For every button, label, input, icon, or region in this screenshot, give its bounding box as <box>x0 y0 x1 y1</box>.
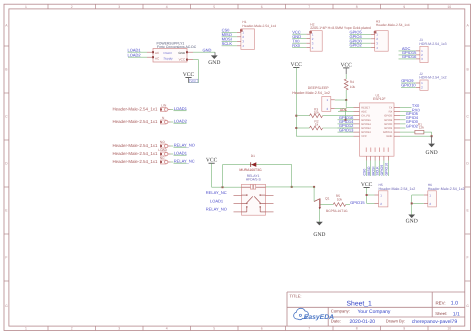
svg-text:12k: 12k <box>419 126 425 130</box>
svg-text:F: F <box>467 256 469 260</box>
svg-text:6: 6 <box>261 327 263 331</box>
svg-text:GPIO5: GPIO5 <box>384 115 392 118</box>
svg-text:G: G <box>5 304 8 308</box>
svg-text:Header-Male-2.54_1x2: Header-Male-2.54_1x2 <box>379 187 416 191</box>
svg-text:TX: TX <box>389 107 393 110</box>
svg-text:1: 1 <box>25 5 27 9</box>
svg-text:10: 10 <box>447 5 451 9</box>
svg-text:CS0: CS0 <box>363 169 367 176</box>
svg-text:Header-Male-2.54_1x1: Header-Male-2.54_1x1 <box>113 119 158 124</box>
svg-text:MISO: MISO <box>367 166 371 175</box>
svg-text:Q1: Q1 <box>325 196 330 200</box>
svg-text:3: 3 <box>118 327 120 331</box>
svg-text:GPIO10: GPIO10 <box>385 163 389 176</box>
svg-text:Header-Male-2.54_1x4: Header-Male-2.54_1x4 <box>376 23 410 27</box>
svg-text:10k: 10k <box>350 85 356 89</box>
svg-text:GPIO13: GPIO13 <box>361 131 371 134</box>
svg-text:GPIO10: GPIO10 <box>401 82 416 87</box>
svg-text:9: 9 <box>403 327 405 331</box>
svg-text:1.0: 1.0 <box>451 301 458 307</box>
svg-text:R4: R4 <box>350 80 354 84</box>
svg-text:LOAD: LOAD <box>158 148 167 152</box>
svg-text:VCC: VCC <box>361 135 367 138</box>
svg-text:MURA160T3G: MURA160T3G <box>239 168 262 172</box>
svg-text:GPIO9: GPIO9 <box>380 165 384 176</box>
svg-text:D1: D1 <box>251 154 255 158</box>
svg-text:HFD4/5-S: HFD4/5-S <box>246 178 262 182</box>
svg-text:Header-Male-2.54_1x1: Header-Male-2.54_1x1 <box>113 151 158 156</box>
svg-text:4: 4 <box>166 5 168 9</box>
svg-text:4: 4 <box>166 327 168 331</box>
svg-text:10: 10 <box>447 327 451 331</box>
svg-text:DEEPSLEEP: DEEPSLEEP <box>308 86 329 90</box>
svg-text:10k: 10k <box>314 111 320 115</box>
svg-text:LOAD1: LOAD1 <box>174 106 188 111</box>
svg-text:ADC: ADC <box>340 108 348 112</box>
svg-text:1: 1 <box>25 327 27 331</box>
svg-text:2205-1*4P H=8.5MM Yxpe Gold-pl: 2205-1*4P H=8.5MM Yxpe Gold-plated <box>310 26 371 30</box>
svg-text:8: 8 <box>356 5 358 9</box>
svg-text:ESP12F: ESP12F <box>373 97 386 101</box>
svg-text:GND: GND <box>178 51 186 55</box>
svg-text:1/1: 1/1 <box>453 311 460 317</box>
svg-text:REV:: REV: <box>436 300 446 305</box>
svg-text:VCC: VCC <box>206 158 218 164</box>
svg-text:GND: GND <box>426 150 438 156</box>
svg-text:2: 2 <box>71 327 73 331</box>
svg-text:VCC: VCC <box>340 62 352 68</box>
svg-text:VCC: VCC <box>361 182 373 188</box>
svg-text:GPIO2: GPIO2 <box>350 43 363 48</box>
svg-text:Header-Male-2.54_1x2: Header-Male-2.54_1x2 <box>292 91 330 95</box>
svg-text:2: 2 <box>71 5 73 9</box>
svg-text:cherepanov-pavel79: cherepanov-pavel79 <box>412 319 458 325</box>
svg-text:Power: Power <box>164 51 173 55</box>
svg-text:VCC: VCC <box>183 72 195 78</box>
svg-text:GPIO16: GPIO16 <box>361 119 371 122</box>
svg-text:EasyEDA: EasyEDA <box>304 314 334 321</box>
svg-text:3: 3 <box>118 5 120 9</box>
svg-text:RX: RX <box>389 111 393 114</box>
svg-text:RESET: RESET <box>361 107 370 110</box>
svg-text:6: 6 <box>261 5 263 9</box>
svg-text:Header-Male-2.54_1x4: Header-Male-2.54_1x4 <box>242 24 276 28</box>
svg-text:LOAD1: LOAD1 <box>174 150 188 155</box>
svg-text:NC: NC <box>160 156 165 160</box>
svg-text:8: 8 <box>356 327 358 331</box>
svg-text:GND: GND <box>386 135 392 138</box>
svg-text:LOAD2: LOAD2 <box>128 53 142 58</box>
svg-text:F: F <box>5 256 7 260</box>
svg-text:5: 5 <box>213 5 215 9</box>
svg-text:SCLK: SCLK <box>376 166 380 176</box>
svg-text:LIN: LIN <box>161 103 167 107</box>
svg-text:7: 7 <box>308 5 310 9</box>
svg-text:GND: GND <box>203 47 212 52</box>
svg-text:RELAY_NO: RELAY_NO <box>174 142 195 147</box>
svg-text:GND: GND <box>406 218 418 224</box>
svg-text:TITLE:: TITLE: <box>290 293 302 298</box>
svg-text:CH_PD: CH_PD <box>361 115 370 118</box>
svg-text:GPIO15: GPIO15 <box>350 200 365 205</box>
svg-text:GPIO2: GPIO2 <box>384 127 392 130</box>
svg-text:RELAY_NC: RELAY_NC <box>206 190 227 195</box>
svg-text:GPIO0: GPIO0 <box>384 123 392 126</box>
svg-text:HDR-M-2.54_1x3: HDR-M-2.54_1x3 <box>419 42 446 46</box>
svg-text:5: 5 <box>213 327 215 331</box>
svg-text:GPIO13: GPIO13 <box>339 127 354 132</box>
svg-text:Sheet_1: Sheet_1 <box>347 301 373 308</box>
svg-text:HDR-M-2.54_1x2: HDR-M-2.54_1x2 <box>419 76 446 80</box>
svg-text:RELAY_NO: RELAY_NO <box>206 207 227 212</box>
svg-text:RX0: RX0 <box>292 43 301 48</box>
svg-text:GND: GND <box>313 232 325 238</box>
svg-text:LOAD2: LOAD2 <box>174 118 188 123</box>
svg-text:GPIO4: GPIO4 <box>384 119 392 122</box>
svg-text:SCLK: SCLK <box>222 41 233 46</box>
svg-text:Header-Male-2.54_1x2: Header-Male-2.54_1x2 <box>428 187 465 191</box>
svg-text:NO: NO <box>160 140 165 144</box>
svg-text:VCC: VCC <box>291 62 303 68</box>
svg-text:9: 9 <box>403 5 405 9</box>
svg-text:Your Company: Your Company <box>358 309 391 315</box>
svg-text:Sheet:: Sheet: <box>435 311 447 316</box>
svg-text:Header-Male-2.54_1x1: Header-Male-2.54_1x1 <box>113 143 158 148</box>
svg-text:G: G <box>466 304 469 308</box>
svg-text:GPIO12: GPIO12 <box>361 127 371 130</box>
svg-text:GPIO14: GPIO14 <box>361 123 371 126</box>
svg-text:BCP56-16T1G: BCP56-16T1G <box>326 209 348 213</box>
svg-text:10k: 10k <box>337 198 343 202</box>
svg-text:GPIO15: GPIO15 <box>383 131 393 134</box>
svg-text:RELAY_NC: RELAY_NC <box>174 158 195 163</box>
svg-text:VCC: VCC <box>191 80 197 83</box>
svg-text:GPIO16: GPIO16 <box>402 54 417 59</box>
svg-text:Header-Male-2.54_1x1: Header-Male-2.54_1x1 <box>113 159 158 164</box>
svg-text:2020-01-20: 2020-01-20 <box>350 319 376 325</box>
svg-text:Drawn By:: Drawn By: <box>386 318 405 323</box>
svg-text:1k: 1k <box>315 123 319 127</box>
svg-text:GND: GND <box>208 60 220 66</box>
svg-text:Supply: Supply <box>164 56 174 60</box>
svg-text:MOSI: MOSI <box>371 167 375 176</box>
svg-text:LOAD1: LOAD1 <box>210 198 224 203</box>
svg-text:ADC: ADC <box>361 111 367 114</box>
svg-text:7: 7 <box>308 327 310 331</box>
svg-text:Header-Male-2.54_1x1: Header-Male-2.54_1x1 <box>113 107 158 112</box>
svg-text:VCC: VCC <box>179 57 186 61</box>
